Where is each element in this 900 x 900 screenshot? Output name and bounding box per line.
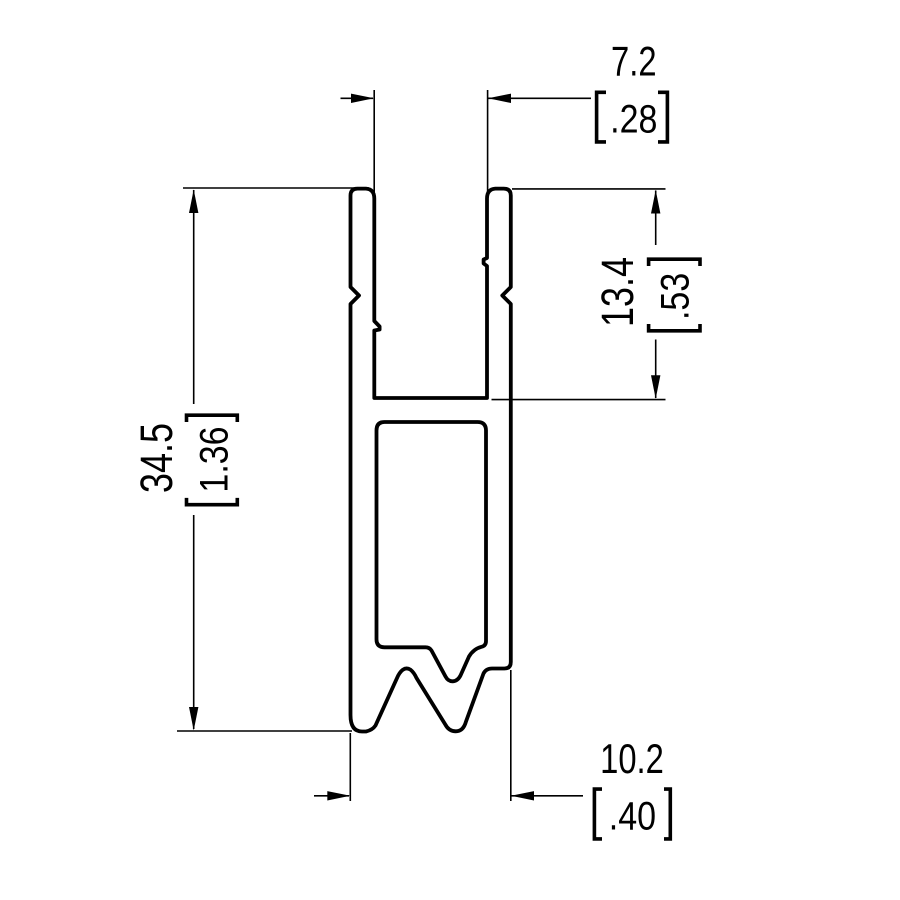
extension line 13.4 bottom [492,399,666,401]
bracket [ of .53 [649,324,700,331]
arrowhead 13.4 up [651,190,660,214]
dimension tail 7.2 right [488,97,591,99]
bracket [ of 1.36 [187,498,238,505]
svg-text:.53: .53 [652,273,697,320]
dimension tail 7.2 left [341,97,374,99]
extension line 13.4 top [512,188,666,190]
bracket [ of .28 [597,92,606,142]
svg-text:1.36: 1.36 [191,426,236,492]
bracket ] of .40 [664,789,670,839]
extension line 7.2 left [373,90,375,197]
arrowhead 10.2 right-pointing [327,791,350,800]
arrowhead 7.2 left-pointing [488,94,511,103]
extension line 10.2 left [349,733,351,801]
dimension tail 10.2 right [511,795,583,797]
svg-text:10.2: 10.2 [600,735,664,782]
dimension line 13.4 lower segment [655,340,657,399]
bracket ] of 1.36 [187,415,238,422]
dimension line 13.4 upper segment [655,191,657,246]
arrowhead 34.5 up [189,190,198,214]
bracket [ of .40 [594,789,602,839]
profile outer outline [351,189,511,732]
bracket ] of .53 [649,259,700,266]
dimension tail 10.2 left [314,795,349,797]
profile inner hole [377,422,487,681]
extension line 10.2 right [510,670,512,801]
arrowhead 10.2 left-pointing [511,791,534,800]
extension line 7.2 right [487,90,489,197]
dimension line 34.5 upper segment [193,190,195,404]
arrowhead 7.2 right-pointing [351,94,374,103]
arrowhead 13.4 down [651,375,660,399]
svg-text:34.5: 34.5 [131,423,182,493]
extension line top-left (34.5 top) [183,187,369,189]
svg-text:.40: .40 [609,793,656,838]
dimension line 34.5 lower segment [193,515,195,729]
extension line bottom-left (34.5 bottom) [177,730,352,732]
bracket ] of .28 [658,92,667,142]
svg-text:7.2: 7.2 [611,38,657,85]
arrowhead 34.5 down [189,707,198,731]
svg-text:.28: .28 [610,96,657,141]
svg-text:13.4: 13.4 [592,257,643,327]
